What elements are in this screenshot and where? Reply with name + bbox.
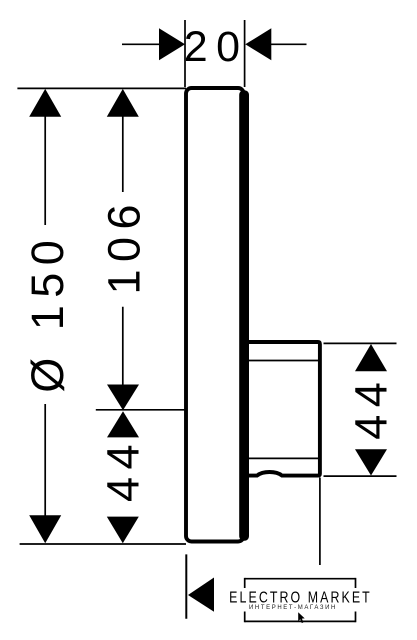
logo frame bottom — [245, 620, 356, 622]
dim150 line lower — [44, 404, 46, 517]
dim150 line upper — [44, 115, 46, 225]
dim44R extension line top — [324, 342, 397, 344]
centerline extension (106/44 junction) — [96, 409, 186, 411]
svg-text:106: 106 — [98, 197, 149, 295]
svg-text:ИНТЕРНЕТ-МАГАЗИН: ИНТЕРНЕТ-МАГАЗИН — [249, 605, 337, 611]
housing inner line top — [246, 360, 318, 362]
dim20 arrow right — [245, 28, 271, 60]
top extension line (plate top, to left) — [17, 87, 186, 89]
svg-text:44: 44 — [346, 375, 397, 440]
dim44R extension line bottom — [324, 475, 397, 477]
dim106 line lower — [122, 307, 124, 386]
plate outline (side view of mixer face plate) — [186, 88, 244, 542]
dim20 leader left — [122, 43, 161, 45]
svg-text:20: 20 — [184, 23, 249, 71]
dim44R arrow down — [355, 449, 387, 475]
logo frame left stubs — [244, 578, 246, 622]
dim106 arrow up — [107, 89, 139, 117]
svg-text:Ø 150: Ø 150 — [22, 233, 73, 393]
logo frame top — [245, 578, 356, 580]
leader line from plate bottom to logo — [185, 554, 187, 618]
dim20 extension line left — [184, 20, 186, 87]
dim20 arrow left — [159, 28, 185, 60]
svg-text:44: 44 — [97, 437, 148, 502]
dim106 line upper — [122, 115, 124, 192]
plate front face thick band (right edge) — [239, 90, 249, 541]
leader line from housing to logo — [319, 478, 321, 566]
dim150 arrow down — [29, 515, 61, 543]
dim44L arrow up — [107, 411, 139, 437]
dim44L arrow down — [107, 517, 139, 544]
dim20 extension line right — [244, 20, 246, 87]
dim44R arrow up — [355, 344, 387, 371]
dim150 arrow up — [29, 89, 61, 117]
mouse cursor — [298, 612, 305, 623]
logo frame right stubs — [355, 578, 357, 622]
housing inner line left — [247, 344, 249, 475]
logo arrow — [188, 578, 214, 612]
svg-text:ELECTRO MARKET: ELECTRO MARKET — [229, 588, 372, 606]
bottom extension line (plate bottom, to left) — [20, 543, 186, 545]
dim106 arrow down — [107, 385, 139, 411]
housing box outline — [245, 342, 320, 476]
dim20 leader right — [269, 43, 306, 45]
housing inner line bottom — [246, 457, 318, 459]
